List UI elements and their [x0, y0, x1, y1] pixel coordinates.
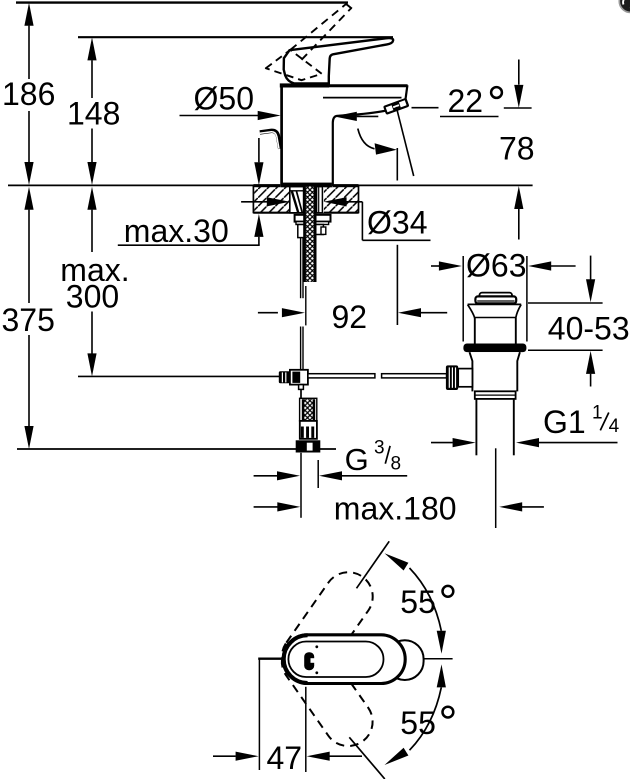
svg-text:G: G — [345, 442, 369, 477]
svg-text:40-53: 40-53 — [548, 310, 630, 346]
svg-text:186: 186 — [2, 76, 55, 112]
svg-text:max.180: max.180 — [334, 490, 457, 526]
svg-text:G1: G1 — [543, 404, 586, 440]
svg-text:148: 148 — [67, 96, 120, 132]
svg-text:Ø50: Ø50 — [194, 80, 254, 116]
svg-text:3: 3 — [374, 438, 385, 459]
svg-text:55: 55 — [400, 584, 436, 620]
svg-text:Ø63: Ø63 — [466, 247, 526, 283]
svg-text:4: 4 — [609, 416, 620, 437]
svg-text:1: 1 — [592, 403, 603, 424]
svg-text:375: 375 — [2, 302, 55, 338]
svg-text:78: 78 — [499, 130, 535, 166]
svg-text:92: 92 — [332, 299, 368, 335]
svg-text:8: 8 — [391, 453, 402, 474]
svg-text:55: 55 — [400, 705, 436, 741]
svg-text:47: 47 — [267, 740, 303, 776]
svg-text:max.30: max.30 — [124, 213, 229, 249]
svg-text:22: 22 — [448, 83, 484, 119]
svg-text:300: 300 — [66, 278, 119, 314]
svg-text:Ø34: Ø34 — [367, 205, 427, 241]
